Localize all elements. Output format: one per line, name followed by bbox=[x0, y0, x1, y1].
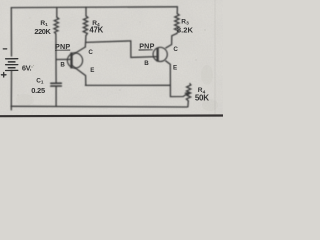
svg-text:PNP: PNP bbox=[55, 42, 70, 51]
svg-text:0.25: 0.25 bbox=[31, 86, 45, 95]
svg-text:8.2K: 8.2K bbox=[177, 25, 194, 34]
svg-text:PNP: PNP bbox=[139, 42, 154, 51]
svg-text:E: E bbox=[90, 67, 94, 74]
svg-text:C1: C1 bbox=[36, 78, 44, 85]
svg-text:220K: 220K bbox=[34, 27, 51, 36]
svg-text:E: E bbox=[173, 64, 177, 71]
svg-text:47K: 47K bbox=[89, 26, 103, 35]
svg-text:C: C bbox=[88, 49, 93, 56]
svg-text:C: C bbox=[173, 46, 178, 53]
svg-text:B: B bbox=[144, 60, 149, 67]
svg-text:6V.: 6V. bbox=[22, 64, 32, 73]
svg-text:B: B bbox=[60, 62, 65, 69]
